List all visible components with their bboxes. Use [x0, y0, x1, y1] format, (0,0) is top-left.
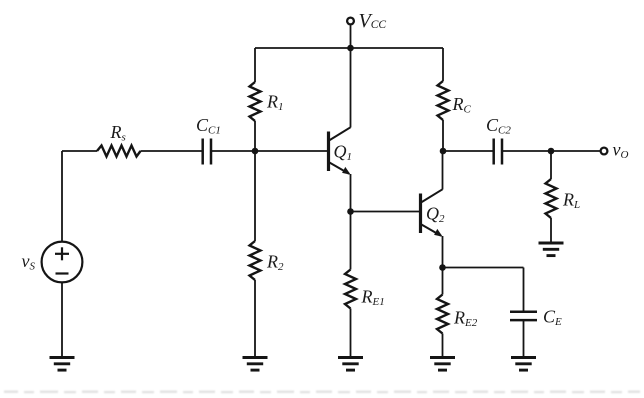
- ground vS: [50, 358, 75, 371]
- decorative bottom smudge: [4, 391, 640, 394]
- svg-text:CC2: CC2: [486, 115, 511, 137]
- resistor Rs: [97, 146, 141, 157]
- capacitor CE: [510, 312, 537, 320]
- node output junction: [548, 148, 555, 155]
- ground R2: [243, 358, 268, 371]
- wire Q1 emitter down: [350, 174, 352, 212]
- terminal vo: [601, 148, 608, 155]
- transistor Q2: [421, 189, 443, 236]
- capacitor CC2: [494, 139, 502, 165]
- svg-text:RE1: RE1: [361, 287, 385, 309]
- source vS: [42, 242, 83, 283]
- node Q1 emitter junction: [347, 208, 354, 215]
- wire RE2 to ground: [442, 334, 444, 358]
- resistor RE1: [345, 270, 356, 309]
- ground RE1: [338, 358, 363, 371]
- wire Q2 emitter down: [442, 236, 444, 268]
- svg-text:vS: vS: [22, 251, 36, 273]
- wire R2 to ground: [254, 280, 256, 358]
- ground CE: [511, 358, 536, 371]
- transistor Q1: [329, 127, 351, 174]
- resistor RL: [546, 179, 557, 218]
- wire collector to CC2: [443, 150, 493, 152]
- resistor RC: [438, 81, 449, 120]
- wire Rs to CC1: [141, 150, 203, 152]
- wire left to Rs: [62, 150, 97, 152]
- wire R1 to node: [254, 121, 256, 151]
- wire input left vertical: [61, 151, 63, 242]
- svg-text:vO: vO: [613, 140, 629, 162]
- node Q2 emitter junction: [439, 264, 446, 271]
- svg-text:CE: CE: [543, 307, 562, 329]
- wire RC to collector node: [442, 120, 444, 151]
- node base junction: [252, 148, 259, 155]
- node Vcc junction: [347, 45, 354, 52]
- svg-text:Q1: Q1: [334, 142, 353, 164]
- wire node to RE1: [350, 212, 352, 270]
- wire rail to RC: [442, 48, 444, 81]
- svg-text:R2: R2: [266, 252, 284, 274]
- svg-text:R1: R1: [266, 92, 284, 114]
- terminal Vcc: [347, 18, 354, 25]
- wire CC1 to Q1 base: [211, 150, 327, 152]
- svg-text:RE2: RE2: [453, 308, 478, 330]
- svg-text:RC: RC: [452, 94, 472, 116]
- svg-text:Rs: Rs: [110, 122, 126, 144]
- svg-text:Q2: Q2: [426, 204, 445, 226]
- wire CC2 to output: [502, 150, 600, 152]
- wire Q1 collector: [350, 48, 352, 128]
- node collector junction: [440, 148, 447, 155]
- wire RL to ground: [550, 218, 552, 243]
- resistor RE2: [437, 295, 448, 334]
- wire output to RL: [550, 151, 552, 179]
- wire Vcc stem: [350, 25, 352, 48]
- svg-text:CC1: CC1: [196, 115, 221, 137]
- wire RE1 to ground: [350, 309, 352, 358]
- resistor R2: [250, 241, 261, 280]
- svg-text:VCC: VCC: [359, 10, 387, 32]
- wire Q2 collector: [442, 151, 444, 190]
- wire source to ground: [61, 282, 63, 357]
- wire emitter to Q2 base: [351, 211, 420, 213]
- wire CE stem: [523, 268, 525, 312]
- capacitor CC1: [203, 139, 211, 165]
- ground RL: [539, 243, 564, 256]
- resistor R1: [250, 82, 261, 121]
- svg-text:RL: RL: [562, 190, 580, 212]
- wire Q2 emitter to CE: [443, 267, 524, 269]
- wire CE to ground: [523, 320, 525, 357]
- wire rail to R1: [254, 48, 256, 82]
- wire node to R2: [254, 151, 256, 241]
- wire top rail: [255, 47, 443, 49]
- wire node to RE2: [442, 268, 444, 295]
- ground RE2: [430, 358, 455, 371]
